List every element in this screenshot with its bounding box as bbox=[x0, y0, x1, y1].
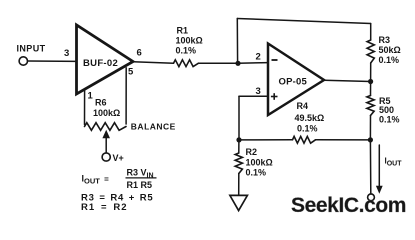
wire BUF-02 output pin 6 to R1 bbox=[133, 62, 174, 63]
wire R5 to bottom node bbox=[369, 116, 371, 140]
formula IOUT equation bbox=[82, 168, 157, 190]
wire R2 to ground bbox=[238, 174, 240, 196]
wire top down to R3 bbox=[370, 24, 372, 41]
svg-text:1: 1 bbox=[88, 91, 94, 102]
node V+ terminal bbox=[102, 153, 110, 161]
op-amp U2 minus sign bbox=[272, 59, 278, 61]
svg-text:500: 500 bbox=[379, 105, 394, 115]
junction pin3/R2/R4 node bbox=[236, 137, 241, 142]
svg-text:100kΩ: 100kΩ bbox=[176, 36, 203, 46]
svg-text:50kΩ: 50kΩ bbox=[379, 45, 401, 55]
svg-text:49.5kΩ: 49.5kΩ bbox=[295, 113, 325, 123]
svg-text:100kΩ: 100kΩ bbox=[246, 158, 273, 168]
svg-text:V+: V+ bbox=[113, 153, 124, 163]
svg-text:R1 = R2: R1 = R2 bbox=[81, 202, 128, 213]
wire feedback top bbox=[237, 19, 370, 24]
svg-text:INPUT: INPUT bbox=[17, 44, 46, 54]
svg-text:R3: R3 bbox=[379, 35, 391, 45]
resistor R4 bbox=[293, 136, 316, 143]
svg-text:R2: R2 bbox=[246, 147, 258, 157]
wire output node to R5 bbox=[370, 82, 372, 96]
wire pin 3 down to R4 node bbox=[238, 96, 240, 140]
svg-text:0.1%: 0.1% bbox=[379, 115, 400, 125]
junction summing node bbox=[235, 61, 240, 66]
wire R3 to output node bbox=[370, 63, 372, 82]
svg-text:100kΩ: 100kΩ bbox=[93, 108, 120, 118]
svg-text:R4: R4 bbox=[297, 101, 309, 111]
wire summing node to pin 2 bbox=[238, 62, 268, 65]
resistor R5 bbox=[367, 96, 374, 116]
wire R6 wiper to V+ bbox=[105, 138, 107, 153]
wire summing node up to feedback bbox=[236, 19, 238, 64]
wire R1 to summing node bbox=[199, 62, 239, 64]
wire input to pin 3 bbox=[28, 60, 77, 62]
svg-text:BUF-02: BUF-02 bbox=[83, 58, 118, 69]
svg-text:2: 2 bbox=[256, 52, 261, 63]
potentiometer R6 bbox=[85, 123, 127, 131]
wire R2 node down bbox=[238, 140, 240, 153]
svg-text:0.1%: 0.1% bbox=[246, 168, 267, 178]
wire bottom node to output terminal bbox=[369, 140, 371, 194]
svg-text:3: 3 bbox=[256, 86, 261, 97]
op-amp U2 plus sign bbox=[271, 93, 278, 100]
wire pin 1 down bbox=[84, 90, 86, 125]
svg-text:R1: R1 bbox=[177, 25, 189, 35]
wire pin 5 down bbox=[125, 68, 127, 124]
svg-text:5: 5 bbox=[128, 67, 134, 78]
node INPUT terminal bbox=[19, 57, 27, 65]
resistor R3 bbox=[367, 40, 374, 63]
svg-text:BALANCE: BALANCE bbox=[131, 122, 176, 132]
svg-text:3: 3 bbox=[64, 48, 69, 59]
wire pin 3 horizontal bbox=[239, 95, 268, 97]
resistor R1 bbox=[174, 60, 199, 67]
wire IOUT arrow shaft bbox=[378, 145, 380, 188]
svg-text:0.1%: 0.1% bbox=[176, 46, 197, 56]
svg-text:R6: R6 bbox=[95, 98, 107, 108]
op-amp U2 OP-05 bbox=[268, 44, 324, 116]
svg-text:0.1%: 0.1% bbox=[379, 55, 400, 65]
svg-text:SeekIC.com: SeekIC.com bbox=[291, 194, 406, 217]
op-amp U1 BUF-02 bbox=[77, 25, 134, 94]
wire R4 to output column bbox=[316, 139, 371, 141]
R6 wiper arrowhead bbox=[102, 130, 110, 139]
wire R4 node to R4 bbox=[239, 139, 293, 141]
junction R4/R5/IOUT node bbox=[368, 137, 373, 142]
ground bbox=[230, 195, 248, 210]
svg-text:6: 6 bbox=[137, 48, 142, 59]
node output terminal bbox=[368, 194, 375, 201]
IOUT arrowhead bbox=[376, 186, 383, 194]
svg-text:OP-05: OP-05 bbox=[279, 76, 308, 87]
svg-text:0.1%: 0.1% bbox=[297, 124, 318, 134]
junction output node bbox=[368, 79, 373, 84]
svg-text:R1 R5: R1 R5 bbox=[127, 180, 153, 190]
resistor R2 bbox=[235, 153, 242, 174]
wire OP-05 output to node bbox=[324, 80, 371, 81]
